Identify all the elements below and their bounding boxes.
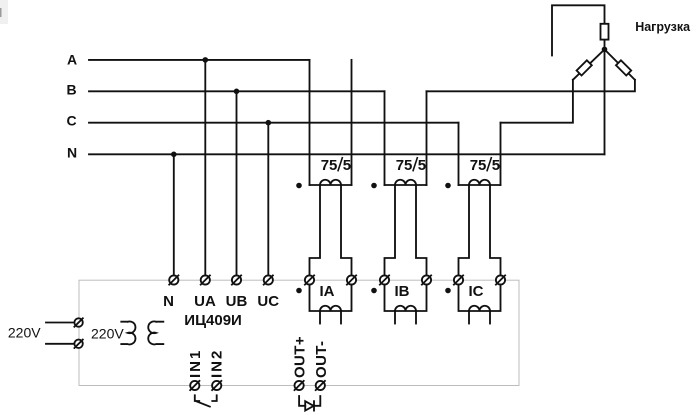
terminal OUT-	[316, 381, 325, 390]
220V input wires	[46, 322, 74, 324]
svg-text:B: B	[66, 81, 76, 97]
switch symbol below IN1/IN2	[195, 395, 199, 401]
svg-text:IN2: IN2	[209, 349, 226, 378]
terminal IC-1	[454, 275, 463, 284]
terminal IN1	[190, 381, 199, 390]
T1 polarity dot	[296, 183, 302, 189]
wire load top loop	[552, 5, 605, 55]
wire phase C	[89, 122, 459, 124]
load resistor left diagonal	[573, 49, 605, 79]
wire phase B	[89, 90, 385, 92]
transformer primary winding	[121, 321, 135, 344]
terminal IN2	[212, 381, 221, 390]
terminal UC	[264, 275, 273, 284]
svg-text:OUT+: OUT+	[292, 336, 309, 378]
wire UA to terminal	[204, 60, 206, 276]
terminal IA-1	[305, 275, 314, 284]
device box ИЦ409И outline	[79, 280, 519, 385]
junction dot C/UC	[266, 120, 272, 126]
T1 primary left lead	[309, 60, 311, 185]
terminal IB-1	[380, 275, 389, 284]
corner artifact	[0, 0, 8, 24]
wire UC to terminal	[267, 123, 269, 276]
svg-text:ИЦ409И: ИЦ409И	[184, 312, 242, 329]
terminal N	[169, 275, 178, 284]
terminal IA-2	[347, 275, 356, 284]
terminal 220V-2	[74, 340, 82, 348]
wire CT2 output to load (B)	[427, 80, 635, 92]
terminal IB-2	[422, 275, 431, 284]
current transformer T1 75/5 (phase A)	[296, 60, 351, 276]
svg-text:5: 5	[418, 157, 426, 174]
wire CT3 output to load (C)	[501, 80, 573, 123]
winding IB	[371, 283, 426, 324]
IA polarity dot	[296, 288, 302, 294]
svg-text:75: 75	[470, 157, 487, 174]
T1 secondary leads	[310, 185, 321, 275]
wire phase N	[89, 153, 605, 155]
current transformer T2 75/5 (phase B)	[371, 91, 426, 275]
svg-text:75: 75	[321, 157, 338, 174]
svg-text:5: 5	[492, 157, 500, 174]
svg-text:IN1: IN1	[187, 349, 204, 378]
svg-text:A: A	[67, 51, 77, 67]
svg-text:220V: 220V	[91, 326, 124, 342]
svg-text:UB: UB	[226, 293, 248, 310]
T1 box bottom	[310, 184, 352, 186]
svg-text:N: N	[67, 144, 77, 160]
svg-text:IC: IC	[469, 283, 484, 300]
wire UB to terminal	[236, 91, 238, 275]
svg-text:IB: IB	[395, 283, 410, 300]
load resistor top (vertical)	[601, 24, 609, 50]
terminal UA	[201, 275, 210, 284]
terminal UB	[232, 275, 241, 284]
svg-text:UC: UC	[257, 293, 279, 310]
junction dot B/UB	[234, 89, 240, 95]
svg-text:5: 5	[343, 157, 351, 174]
T1 primary winding humps	[320, 180, 341, 185]
svg-text:OUT-: OUT-	[313, 341, 330, 378]
current transformer T3 75/5 (phase C)	[445, 123, 500, 276]
svg-text:220V: 220V	[8, 325, 41, 341]
diode symbol below OUT terminals	[299, 396, 320, 411]
terminal 220V-1	[74, 318, 82, 326]
svg-text:IA: IA	[320, 283, 335, 300]
svg-text:N: N	[163, 293, 174, 310]
transformer secondary winding	[148, 321, 163, 344]
junction dot N	[171, 152, 177, 158]
wire phase A	[89, 59, 310, 61]
winding IA	[296, 283, 351, 324]
svg-text:Нагрузка: Нагрузка	[635, 20, 691, 34]
wire N to terminal	[173, 154, 175, 275]
junction dot A/UA	[203, 57, 209, 63]
winding IC	[445, 283, 500, 324]
T1 primary right lead	[351, 60, 353, 185]
svg-text:UA: UA	[194, 293, 216, 310]
load resistor right diagonal	[605, 49, 635, 79]
svg-text:75: 75	[396, 157, 413, 174]
wire star point down to N	[604, 49, 606, 154]
svg-text:C: C	[66, 113, 76, 129]
terminal IC-2	[496, 275, 505, 284]
terminal OUT+	[295, 381, 304, 390]
load star point dot	[602, 47, 608, 53]
